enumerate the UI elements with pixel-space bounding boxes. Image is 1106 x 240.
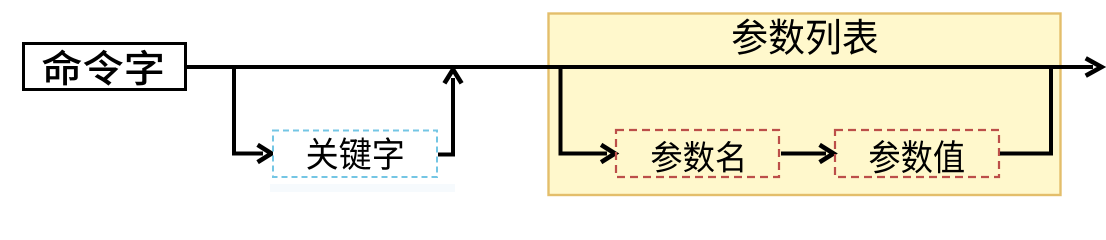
- label 命令字: [42, 49, 162, 85]
- parameter-name box 参数名 (red dashed): [616, 130, 779, 177]
- keyword box 关键字 (blue dashed): [273, 131, 437, 178]
- keyword return arrowhead (up): [444, 70, 461, 84]
- parameter-list container (yellow group box): [549, 14, 1061, 196]
- label 参数列表: [733, 18, 878, 54]
- label 参数名: [652, 141, 743, 173]
- parameter branch: down wire: [561, 67, 608, 154]
- wire 参数名 to 参数值: [781, 152, 826, 156]
- connector arrowhead: [820, 145, 834, 162]
- label 关键字: [307, 137, 402, 170]
- parameter return wire: [1000, 69, 1051, 154]
- watermark (faint): [270, 184, 455, 192]
- command-word box 命令字: [24, 44, 186, 90]
- label 参数值: [870, 140, 964, 173]
- parameter branch arrowhead: [601, 145, 615, 162]
- keyword branch: down wire: [234, 67, 263, 154]
- main rail arrowhead: [1086, 58, 1102, 76]
- parameter-value box 参数值 (red dashed): [835, 130, 999, 177]
- keyword return wire: [438, 78, 453, 155]
- keyword branch arrowhead: [258, 145, 272, 162]
- main rail wire: [187, 65, 1093, 69]
